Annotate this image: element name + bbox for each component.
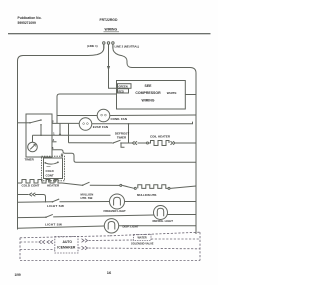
svg-text:EVAP. FAN: EVAP. FAN bbox=[93, 125, 108, 129]
svg-text:AUTO: AUTO bbox=[63, 240, 73, 244]
svg-text:TIMER: TIMER bbox=[117, 136, 127, 140]
svg-text:SOLENOID VALVE: SOLENOID VALVE bbox=[131, 242, 154, 246]
svg-text:WIRING: WIRING bbox=[105, 28, 118, 32]
svg-text:FRT22RGD: FRT22RGD bbox=[100, 18, 118, 22]
svg-text:COIL HEATER: COIL HEATER bbox=[150, 135, 171, 139]
svg-text:COND. FAN: COND. FAN bbox=[111, 117, 128, 121]
svg-text:REFRIG. LIGHT: REFRIG. LIGHT bbox=[153, 219, 174, 223]
svg-text:ICEMAKER: ICEMAKER bbox=[57, 246, 76, 250]
svg-text:MULLION HTR.: MULLION HTR. bbox=[137, 193, 157, 197]
svg-text:2: 2 bbox=[52, 119, 54, 123]
svg-text:LIGHT SW: LIGHT SW bbox=[45, 222, 62, 226]
svg-text:HEATER: HEATER bbox=[47, 183, 60, 187]
svg-text:5995271099: 5995271099 bbox=[18, 21, 37, 25]
svg-text:WATER: WATER bbox=[138, 236, 147, 240]
svg-text:GREEN: GREEN bbox=[118, 85, 127, 89]
svg-text:WHITE: WHITE bbox=[167, 91, 177, 95]
svg-text:FREEZER LIGHT: FREEZER LIGHT bbox=[104, 209, 127, 213]
svg-text:RED: RED bbox=[118, 89, 124, 93]
svg-text:DISP. LIGHT: DISP. LIGHT bbox=[123, 224, 139, 228]
svg-text:HTR. SW.: HTR. SW. bbox=[81, 196, 94, 200]
svg-text:LINE 2 (NEUTRAL): LINE 2 (NEUTRAL) bbox=[115, 45, 140, 49]
svg-text:Publication No.: Publication No. bbox=[18, 16, 42, 20]
svg-text:(LINE 1): (LINE 1) bbox=[87, 44, 98, 48]
svg-text:16: 16 bbox=[107, 270, 112, 275]
svg-text:SEE: SEE bbox=[144, 84, 152, 88]
svg-text:TIMER: TIMER bbox=[25, 157, 35, 161]
svg-text:1/99: 1/99 bbox=[15, 273, 21, 277]
svg-text:LIGHT SW: LIGHT SW bbox=[47, 204, 64, 208]
svg-text:WIRING: WIRING bbox=[141, 99, 154, 103]
svg-text:COLD CONT: COLD CONT bbox=[22, 183, 40, 187]
svg-text:COMPRESSOR: COMPRESSOR bbox=[135, 91, 161, 95]
svg-text:CONT: CONT bbox=[46, 173, 54, 177]
